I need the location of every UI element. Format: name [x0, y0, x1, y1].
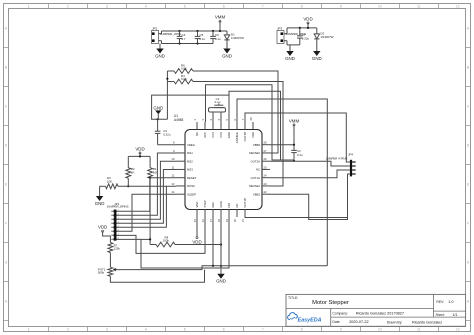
svg-text:GND: GND — [219, 201, 223, 207]
resistor R1 — [148, 156, 158, 178]
ground below JP2 — [155, 44, 165, 58]
wire MS1 to JP1 pin2 — [116, 153, 176, 215]
svg-text:1K: 1K — [131, 170, 135, 174]
capacitor C5 — [195, 31, 206, 44]
wire VDD to R7 — [103, 231, 111, 242]
wire C2 bottom to VCP loop — [206, 85, 295, 160]
svg-text:VMM: VMM — [289, 118, 300, 123]
svg-text:VCP: VCP — [203, 132, 207, 138]
svg-text:100k: 100k — [163, 239, 170, 243]
resistor R8 — [150, 235, 221, 247]
svg-text:B: B — [467, 66, 469, 70]
svg-text:GND: GND — [227, 132, 231, 138]
wire R3 gnd drop — [99, 186, 101, 191]
resistor R6 — [174, 63, 193, 73]
svg-text:JP2: JP2 — [152, 26, 158, 30]
power flag VDD bottom (pin 15) — [192, 217, 201, 245]
wire R4 to SENSE1 — [193, 82, 283, 187]
wire VMM to VBB2 — [270, 125, 294, 150]
power flag VDD bottom-left — [98, 225, 107, 233]
wire ENABLE loop — [237, 99, 327, 266]
wire MS3 to JP1 pin4 — [116, 169, 176, 223]
wire VMM drop — [219, 21, 221, 31]
svg-text:1N4007W: 1N4007W — [231, 36, 244, 40]
svg-text:REV:: REV: — [436, 300, 444, 304]
svg-text:15: 15 — [193, 219, 197, 223]
diode D1 — [224, 31, 244, 44]
svg-text:GND: GND — [95, 201, 105, 206]
wire STEP to JP1 pin7 — [116, 217, 205, 253]
title text Motor Stepper — [312, 300, 349, 306]
svg-text:Motor Stepper: Motor Stepper — [312, 300, 349, 306]
svg-text:RESET: RESET — [187, 176, 197, 180]
capacitor C6 — [210, 31, 221, 44]
svg-text:4: 4 — [145, 327, 147, 331]
svg-text:1N4007W: 1N4007W — [321, 35, 334, 39]
resistor R2 — [126, 156, 135, 178]
svg-text:3: 3 — [106, 327, 108, 331]
svg-text:500k: 500k — [98, 271, 105, 275]
svg-text:18: 18 — [217, 219, 221, 223]
svg-text:6: 6 — [223, 327, 225, 331]
resistor R4 — [174, 74, 193, 84]
svg-text:TITLE:: TITLE: — [288, 296, 298, 300]
junction dot R2 ROSC — [127, 185, 129, 187]
svg-text:PAD: PAD — [251, 132, 255, 138]
svg-text:ROSC: ROSC — [187, 184, 195, 188]
wire DIR to JP1 pin8 — [116, 217, 229, 268]
connector JP1 jumper 8 pins — [107, 202, 129, 241]
svg-text:REF: REF — [211, 202, 215, 208]
svg-text:VDD: VDD — [195, 202, 199, 208]
svg-text:17: 17 — [209, 219, 213, 223]
svg-text:0.05: 0.05 — [181, 67, 187, 71]
svg-text:9: 9 — [340, 327, 342, 331]
svg-text:Ricardo Gonzalez: Ricardo Gonzalez — [412, 320, 442, 324]
svg-text:DIR: DIR — [227, 203, 231, 208]
wire VDD rail — [128, 153, 150, 156]
wire ROSC rail — [100, 185, 176, 187]
wire top rail VMM — [162, 30, 228, 32]
svg-text:8: 8 — [301, 327, 303, 331]
svg-text:VBB2: VBB2 — [253, 143, 261, 147]
svg-text:VDD: VDD — [303, 16, 312, 21]
wire OUT2A to JP4 pin2 — [270, 161, 350, 166]
jumper JP2 — [152, 26, 181, 43]
power flag VDD top-right — [303, 16, 312, 24]
svg-text:10: 10 — [378, 327, 382, 331]
svg-text:VMM: VMM — [215, 15, 226, 20]
junction dot VDD rail — [139, 155, 141, 157]
wire SLEEP to JP1 pin6 — [116, 194, 176, 231]
svg-text:16: 16 — [201, 219, 205, 223]
svg-text:Company:: Company: — [332, 312, 348, 316]
svg-text:0.1u: 0.1u — [200, 37, 206, 41]
wire JP1 pin1 to RESET net — [116, 178, 149, 212]
connector JP4 jumper 4 pins — [326, 152, 356, 176]
svg-text:OUT2B: OUT2B — [243, 132, 247, 141]
svg-text:SENSE1: SENSE1 — [249, 184, 260, 188]
wire R1 to RESET and R8 — [149, 178, 151, 244]
wire gnd drop JP2 — [159, 44, 161, 46]
svg-text:10: 10 — [171, 157, 175, 161]
wire GND column — [220, 217, 222, 269]
wire gnd drop JP3 — [289, 45, 291, 47]
wire gnd branch left of IC — [152, 95, 229, 120]
wire R2 to ROSC rail — [127, 178, 129, 186]
resistor R7 — [108, 243, 120, 253]
U1 top pins NC VCP CP1 CP2 GND ENABLE OUT2B PAD — [193, 117, 255, 143]
junction dots bottom rail — [178, 42, 198, 44]
svg-text:OUT1A: OUT1A — [251, 176, 260, 180]
svg-text:JP3: JP3 — [277, 26, 283, 30]
svg-text:0.1u: 0.1u — [297, 153, 303, 157]
wire VBB1 branch — [270, 194, 348, 219]
svg-text:MS1: MS1 — [187, 151, 193, 155]
svg-text:OUT1B: OUT1B — [243, 198, 247, 207]
svg-text:8: 8 — [301, 4, 303, 8]
U1 right pins VBB2 SENSE2 OUT2A NC OUT1A SENSE1 VBB1 — [249, 141, 270, 197]
svg-text:CP2: CP2 — [219, 132, 223, 138]
svg-text:1/1: 1/1 — [453, 313, 458, 317]
svg-text:125k: 125k — [114, 247, 121, 251]
ground flag left of IC — [153, 105, 163, 119]
jumper JP3 — [277, 26, 306, 45]
junction dots top rail — [178, 30, 221, 32]
svg-text:2020-07-22: 2020-07-22 — [349, 320, 368, 324]
svg-text:0.22u: 0.22u — [302, 36, 310, 40]
svg-text:ENABLE: ENABLE — [235, 132, 239, 143]
ground below R3 — [95, 192, 105, 206]
wire OUT1B rail to JP4 pin4 — [245, 174, 350, 218]
wire REF net from POT wiper — [114, 266, 327, 270]
svg-text:19: 19 — [225, 219, 229, 223]
svg-text:GND: GND — [222, 53, 232, 58]
svg-text:A4988: A4988 — [174, 118, 183, 122]
svg-text:0.22u: 0.22u — [163, 133, 171, 137]
wire top rail VDD — [287, 27, 317, 29]
op-amp U1 body (A4988 driver) — [174, 114, 262, 209]
svg-text:7: 7 — [262, 4, 264, 8]
svg-text:JP4: JP4 — [348, 152, 353, 156]
svg-text:25: 25 — [264, 165, 268, 169]
svg-text:SLEEP: SLEEP — [187, 192, 196, 196]
svg-text:MS3: MS3 — [187, 168, 193, 172]
svg-text:11: 11 — [172, 165, 175, 169]
svg-text:F: F — [467, 222, 469, 226]
power flag VMM right — [289, 118, 300, 126]
wire MS2 to JP1 pin3 — [116, 161, 176, 219]
svg-text:5: 5 — [184, 327, 186, 331]
potentiometer POT1 — [98, 267, 117, 276]
svg-text:21: 21 — [241, 219, 245, 223]
capacitor C2 — [291, 149, 303, 162]
svg-text:NC: NC — [235, 203, 239, 207]
junction dot R1 RESET — [149, 177, 151, 179]
svg-text:26: 26 — [264, 157, 268, 161]
svg-text:VDD: VDD — [135, 146, 144, 151]
svg-text:VREG: VREG — [187, 143, 195, 147]
wire JP1 pin5 to ROSC net — [116, 186, 166, 227]
ground below D1 — [222, 44, 232, 58]
wire REF pin descent — [212, 217, 214, 267]
svg-text:SENSE2: SENSE2 — [249, 151, 260, 155]
svg-text:0.05: 0.05 — [181, 77, 187, 81]
wire OUT1A to JP4 pin3 — [270, 170, 350, 178]
svg-text:GND: GND — [155, 53, 165, 58]
wire OUT2B to JP4 pin1 — [245, 113, 350, 162]
U1 left pins VREG MS1 MS2 MS3 RESET ROSC SLEEP — [171, 141, 196, 197]
svg-text:VDD: VDD — [98, 225, 107, 230]
svg-text:5: 5 — [184, 4, 186, 8]
svg-text:14: 14 — [171, 190, 175, 194]
svg-text:22: 22 — [264, 190, 268, 194]
EasyEDA logo — [288, 313, 322, 324]
U1 bottom pins VDD STEP REF GND DIR NC OUT1B — [193, 198, 247, 222]
svg-text:7: 7 — [262, 327, 264, 331]
svg-text:0.1u: 0.1u — [215, 37, 221, 41]
company row — [332, 312, 404, 316]
capacitor C7 — [297, 28, 309, 45]
wire R7 to POT1 — [109, 253, 111, 268]
wire VDD drop — [307, 23, 309, 28]
wire sense common — [167, 71, 174, 119]
svg-text:GND: GND — [285, 56, 295, 61]
power flag VDD left — [135, 146, 144, 154]
svg-text:12: 12 — [171, 174, 175, 178]
svg-text:2: 2 — [67, 327, 69, 331]
junction dot VBB2 VMM — [293, 144, 295, 146]
svg-text:1: 1 — [28, 327, 30, 331]
svg-text:E: E — [5, 183, 7, 187]
svg-text:4.7: 4.7 — [182, 37, 186, 41]
svg-text:10: 10 — [378, 4, 382, 8]
capacitor C4 — [177, 31, 186, 44]
svg-text:Sheet:: Sheet: — [436, 313, 445, 317]
svg-text:23: 23 — [264, 182, 268, 186]
svg-text:E: E — [467, 183, 469, 187]
svg-text:NC: NC — [195, 132, 199, 136]
svg-text:B: B — [5, 66, 7, 70]
svg-text:GND: GND — [216, 279, 226, 284]
svg-text:2: 2 — [67, 4, 69, 8]
svg-text:9: 9 — [340, 4, 342, 8]
svg-text:11: 11 — [417, 4, 421, 8]
wire GND top pin loop — [229, 91, 281, 160]
svg-text:MS2: MS2 — [187, 159, 193, 163]
svg-text:3: 3 — [106, 4, 108, 8]
wire bottom rail right — [287, 44, 300, 46]
svg-text:1.0: 1.0 — [448, 300, 453, 304]
wire RESET row — [150, 177, 176, 179]
wire bottom rail — [162, 43, 214, 45]
resistor R3 — [106, 176, 119, 189]
capacitor C1 between CP1 CP2 — [209, 97, 226, 122]
svg-text:F: F — [5, 222, 7, 226]
power flag VMM top-left — [215, 15, 226, 23]
svg-text:27: 27 — [264, 149, 268, 153]
wire row8 extension junction — [141, 238, 151, 240]
wire POT1 bottom to GND rail — [110, 270, 204, 283]
diode D2 — [314, 28, 334, 47]
svg-text:GND: GND — [312, 56, 322, 61]
svg-text:Drawn By:: Drawn By: — [387, 320, 403, 324]
svg-text:Ricardo Gonzalez 20170827: Ricardo Gonzalez 20170827 — [356, 312, 404, 316]
svg-text:1: 1 — [28, 4, 30, 8]
svg-text:JUMPER 4 PINS: JUMPER 4 PINS — [326, 156, 348, 160]
svg-text:24: 24 — [264, 174, 268, 178]
wire R6 to SENSE2 — [193, 71, 278, 153]
svg-text:JUMPER_2PIN: JUMPER_2PIN — [160, 32, 181, 36]
svg-text:28: 28 — [264, 141, 268, 145]
svg-text:4: 4 — [145, 4, 147, 8]
svg-text:JUMPER_8PINS: JUMPER_8PINS — [107, 205, 129, 209]
svg-text:13: 13 — [171, 182, 175, 186]
svg-text:VBB1: VBB1 — [253, 192, 261, 196]
svg-text:Date:: Date: — [332, 320, 340, 324]
svg-text:VDD: VDD — [192, 240, 201, 245]
capacitor C3 on VREG — [155, 119, 176, 144]
svg-text:EasyEDA: EasyEDA — [298, 317, 322, 323]
ground below D2 — [312, 47, 322, 61]
sheet label — [436, 313, 458, 317]
title block frame — [286, 294, 466, 326]
svg-text:STEP: STEP — [203, 200, 207, 207]
svg-text:12: 12 — [456, 4, 460, 8]
rev label — [436, 300, 453, 304]
svg-text:OUT2A: OUT2A — [251, 159, 260, 163]
svg-text:11: 11 — [417, 327, 421, 331]
svg-text:0.1u: 0.1u — [215, 100, 221, 104]
svg-text:20: 20 — [233, 219, 237, 223]
junction dots VDD rail — [299, 27, 309, 29]
svg-text:29: 29 — [249, 117, 253, 121]
ground bottom center — [216, 269, 226, 283]
svg-text:CP1: CP1 — [211, 132, 215, 138]
svg-text:10K: 10K — [107, 180, 112, 184]
svg-text:12: 12 — [456, 327, 460, 331]
svg-text:GND: GND — [153, 105, 163, 110]
svg-text:6: 6 — [223, 4, 225, 8]
svg-text:NC: NC — [256, 168, 260, 172]
date row — [332, 320, 442, 324]
ground below JP3 — [285, 47, 295, 61]
title label — [288, 296, 298, 300]
junction dot sense common — [166, 78, 168, 80]
